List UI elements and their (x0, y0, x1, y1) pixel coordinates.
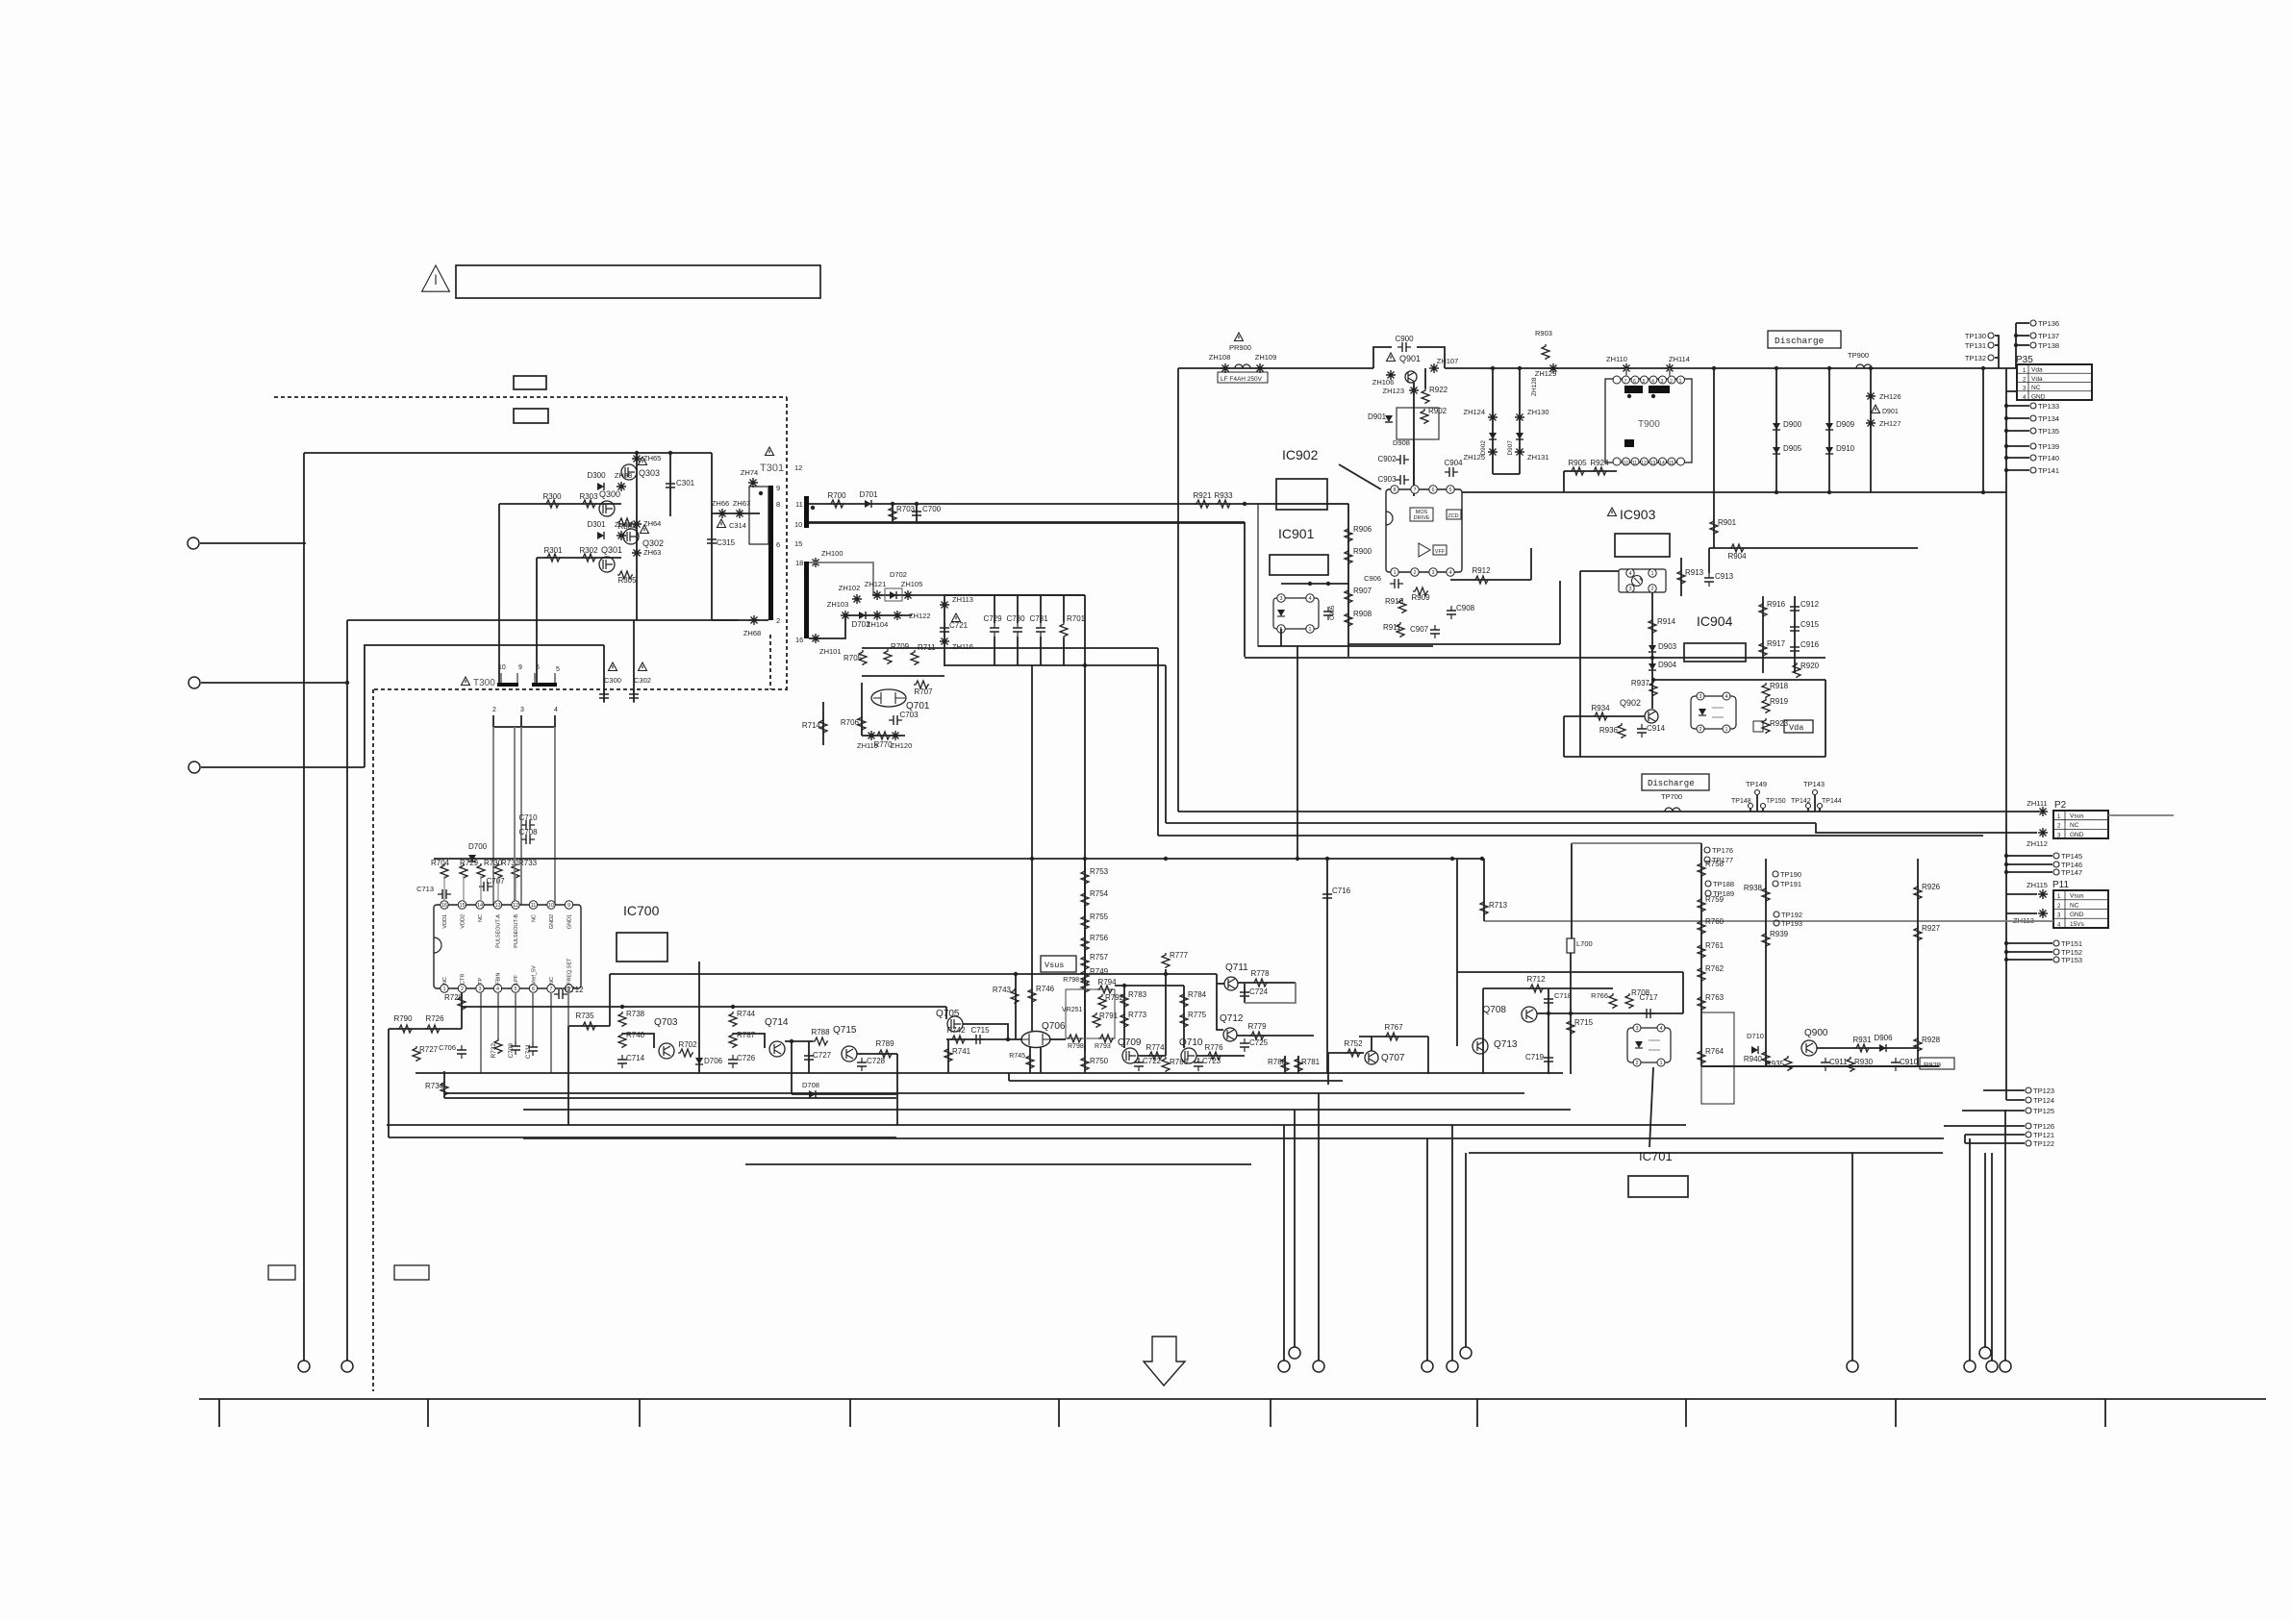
inductor TP700 (1665, 808, 1680, 812)
diode D904 (1649, 663, 1656, 670)
resistor R740 (618, 1033, 626, 1048)
testpoint TP192 (1774, 912, 1779, 917)
wire Q705 out (963, 1024, 1008, 1039)
junction Q708 row b (1569, 1012, 1573, 1015)
junction C700 (915, 502, 919, 506)
junction driver rail b (731, 1005, 735, 1009)
capacitor C900 (1397, 346, 1411, 348)
warning C721 (952, 613, 961, 622)
wire ground rail right (1701, 1065, 1939, 1067)
wire T900 pin2 up (1669, 368, 1671, 376)
svg-text:10: 10 (1623, 461, 1628, 466)
jumper ZH110 (1622, 363, 1631, 373)
jumper ZH63 (632, 548, 642, 558)
transistor Q715 (842, 1046, 857, 1062)
wire IC902 block bottom (1348, 643, 1560, 645)
wire right bus A (1982, 368, 1984, 493)
svg-text:TP190: TP190 (1780, 870, 1801, 879)
wire TP136 stub (2016, 322, 2029, 324)
IC902 pin 5 (1447, 486, 1454, 493)
resistor R744 (729, 1012, 737, 1027)
IC700 pin6 lead (532, 992, 534, 1042)
resistor R707 (914, 681, 929, 688)
diode D301 (597, 532, 604, 539)
wire C718 col (1548, 988, 1549, 1074)
svg-text:1: 1 (442, 987, 445, 992)
wire C710 left (514, 727, 516, 905)
connector P2 divider (2064, 811, 2066, 838)
wire bus 1137 (445, 1092, 1524, 1094)
svg-text:6: 6 (776, 540, 780, 549)
bottom tick 9 (1895, 1399, 1897, 1427)
resistor R709 (884, 649, 892, 664)
svg-text:11: 11 (531, 903, 537, 909)
svg-text:18: 18 (795, 559, 803, 567)
svg-text:R777: R777 (1170, 951, 1189, 960)
svg-text:C714: C714 (626, 1054, 645, 1062)
svg-text:10: 10 (548, 903, 554, 909)
IC902 ZCD box (1447, 510, 1461, 519)
snubber box D901/R902 (1397, 408, 1439, 439)
transistor Q712 (1223, 1028, 1237, 1041)
junction TP y435 (2004, 416, 2008, 420)
svg-text:PR900: PR900 (1229, 343, 1251, 352)
wire T301 pin2 (712, 619, 768, 621)
testpoint TP134 (2030, 415, 2036, 421)
svg-text:1: 1 (1659, 1061, 1662, 1066)
wire bus 1170 (387, 1124, 1686, 1126)
junction rail893 x1349 (1296, 857, 1299, 861)
diode D702 (890, 591, 896, 599)
svg-text:6: 6 (1633, 379, 1636, 385)
resistor R904 (1729, 544, 1745, 552)
resistor R726 (425, 1025, 441, 1033)
resistor R741 (944, 1047, 952, 1062)
svg-text:ZH106: ZH106 (1372, 378, 1395, 387)
svg-text:Q713: Q713 (1494, 1039, 1518, 1050)
svg-text:R773: R773 (1128, 1011, 1147, 1019)
bottom tick 3 (639, 1399, 641, 1427)
svg-text:ZH68: ZH68 (743, 629, 761, 637)
svg-text:ZH122: ZH122 (909, 612, 931, 620)
resistor R746 (1028, 987, 1036, 1003)
wire drop t6 (1465, 1153, 1467, 1347)
IC700 top pin 9 (565, 901, 572, 909)
diode D708 (809, 1090, 816, 1098)
connector P2 outer (2053, 811, 2108, 838)
wire bus 1124 (1009, 1080, 1343, 1082)
svg-text:13: 13 (1650, 461, 1656, 466)
svg-text:C302: C302 (634, 676, 651, 685)
svg-text:R709: R709 (891, 642, 910, 651)
wire Q902 left (1563, 716, 1565, 757)
jumper ZH127 (1866, 418, 1876, 428)
svg-text:Q301: Q301 (601, 545, 622, 555)
capacitor C706 (461, 1045, 463, 1059)
svg-text:ZH100: ZH100 (821, 549, 843, 558)
resistor R923 (1762, 718, 1770, 734)
resistor R734 (441, 1081, 448, 1096)
junction TP right y907 (2004, 870, 2008, 874)
svg-text:ZH63: ZH63 (643, 548, 661, 557)
resistor R727 (413, 1046, 420, 1062)
svg-text:LPF: LPF (514, 974, 519, 985)
capacitor C728 (861, 1058, 863, 1071)
svg-text:R929: R929 (1924, 1061, 1941, 1069)
part label box 1 (514, 376, 546, 389)
testpoint TP140 (2030, 455, 2036, 461)
svg-text:R933: R933 (1214, 491, 1233, 500)
svg-text:R715: R715 (1574, 1018, 1594, 1027)
svg-text:ZH129: ZH129 (1535, 369, 1557, 378)
svg-text:C719: C719 (1525, 1053, 1545, 1062)
svg-text:PULSEOUT-A: PULSEOUT-A (496, 914, 502, 948)
wire drop t4 (1426, 1138, 1428, 1361)
wire Q715 out (857, 1053, 897, 1055)
capacitor C723 (1197, 1058, 1199, 1071)
IC700 top pin 10 (547, 901, 555, 909)
svg-text:R900: R900 (1353, 547, 1372, 556)
svg-text:ZH124: ZH124 (1463, 408, 1485, 416)
testpoint TP176 (1704, 847, 1710, 853)
svg-text:C708: C708 (518, 828, 538, 837)
svg-text:D906: D906 (1874, 1034, 1893, 1042)
wire Q705 gate (945, 1007, 947, 1019)
resistor R750 (1081, 1056, 1089, 1071)
svg-text:TP: TP (478, 978, 484, 985)
wire TP right2 y990 (2006, 951, 2052, 953)
svg-text:ZCD: ZCD (1448, 513, 1458, 519)
svg-text:R702: R702 (678, 1040, 697, 1049)
connector P2 row 1 (2053, 810, 2108, 812)
wire TP right y890 (2006, 855, 2052, 857)
diode D902 (1489, 433, 1497, 439)
svg-text:R755: R755 (1090, 912, 1109, 921)
T300 winding lead 10 (500, 673, 502, 683)
part box bottom-left 2 (394, 1265, 429, 1280)
T301 dot pin9 (759, 491, 763, 495)
IC903 pass device (1632, 576, 1643, 587)
svg-text:ZH67: ZH67 (733, 499, 750, 508)
wire drop t3 (1318, 1093, 1320, 1361)
junction top rail (635, 451, 639, 455)
svg-text:IC904: IC904 (1697, 613, 1733, 629)
wire TP138 stub (2016, 344, 2029, 346)
svg-text:R701: R701 (1067, 614, 1086, 623)
wire Q707 base drop (1327, 1053, 1329, 1085)
wire TP right2 y981 (2006, 942, 2052, 944)
IC700 top pin 16 (441, 901, 448, 909)
svg-text:NC: NC (2070, 902, 2079, 909)
connector P35 row 1 (2017, 363, 2092, 365)
svg-text:R779: R779 (1247, 1022, 1267, 1031)
svg-text:ZH103: ZH103 (827, 600, 849, 609)
resistor R912 (1473, 576, 1489, 584)
resistor R919 (1762, 698, 1770, 713)
svg-text:ZH112: ZH112 (2027, 839, 2048, 848)
wire ZH126 col (1870, 368, 1872, 492)
wire TP149 stub (1756, 795, 1758, 812)
warning C314 (718, 519, 726, 528)
svg-text:C707: C707 (486, 877, 505, 886)
capacitor C722 (1138, 1058, 1140, 1071)
resistor R302 (581, 554, 596, 562)
svg-text:C724: C724 (1249, 987, 1269, 996)
wire P2 vsus ext (2108, 814, 2174, 816)
resistor R713 (1480, 900, 1488, 915)
transistor Q706 (dual) (1021, 1032, 1050, 1048)
wire T900 pin7 up (1625, 368, 1627, 376)
bottom tick 4 (849, 1399, 851, 1427)
svg-text:Q303: Q303 (639, 468, 660, 478)
svg-text:R937: R937 (1631, 679, 1650, 687)
bottom terminal 10 (1964, 1361, 1976, 1372)
junction TP137 (2014, 334, 2018, 337)
wire block right (1825, 680, 1826, 757)
svg-text:R939: R939 (1770, 930, 1789, 938)
svg-text:11: 11 (795, 500, 803, 509)
IC901 pin 3 (1277, 594, 1285, 602)
svg-text:4: 4 (1448, 570, 1451, 576)
wire Q301 source rail (347, 619, 738, 621)
warning T301 (766, 447, 774, 456)
wire C900 loop (1373, 347, 1392, 368)
svg-text:C916: C916 (1800, 640, 1820, 649)
down arrow (1144, 1337, 1185, 1386)
svg-text:ZH108: ZH108 (1209, 353, 1231, 362)
IC901 block outline (1258, 504, 1348, 646)
IC901 zener (1277, 610, 1285, 616)
svg-text:C730: C730 (1006, 614, 1025, 623)
capacitor C730 (1017, 623, 1019, 637)
capacitor C301 (669, 479, 671, 492)
wire Q711 out (1238, 982, 1296, 984)
wire ladder col (1084, 859, 1086, 1073)
svg-text:5: 5 (556, 666, 560, 673)
wire Q714 out (785, 1040, 813, 1042)
connector P35 row 2 (2017, 372, 2092, 374)
svg-text:R756: R756 (1090, 934, 1109, 942)
svg-text:R940: R940 (1744, 1055, 1763, 1063)
svg-text:R759: R759 (1705, 895, 1725, 904)
svg-text:R305: R305 (617, 576, 637, 585)
svg-text:GND: GND (2070, 832, 2084, 838)
testpoint TP152 (2053, 949, 2059, 955)
junction R777 (1164, 972, 1168, 976)
svg-text:ZH128: ZH128 (1531, 377, 1538, 396)
wire bus 1199 (1469, 1152, 1943, 1154)
svg-text:D300: D300 (587, 471, 606, 480)
svg-text:R746: R746 (1036, 985, 1055, 993)
T301 secondary bar B (804, 562, 809, 638)
jumper ZH64 (632, 519, 642, 529)
capacitor C904 (1445, 471, 1458, 473)
svg-text:R760: R760 (1705, 917, 1725, 926)
wire C300 (603, 645, 605, 702)
thermistor Q901 (1405, 371, 1417, 383)
wire C912 col (1794, 596, 1796, 673)
connector P11 outer (2053, 890, 2108, 928)
junction Q708 row a (1547, 1012, 1550, 1015)
wire fb row (568, 1025, 610, 1027)
testpoint TP125 (2026, 1108, 2031, 1113)
svg-text:R911: R911 (1383, 623, 1401, 632)
svg-text:6: 6 (532, 987, 535, 992)
svg-text:R908: R908 (1353, 610, 1372, 618)
svg-text:R913: R913 (1685, 568, 1704, 577)
resistor R914 (1649, 618, 1656, 634)
jumper ZH130 (1515, 412, 1524, 422)
wire R781 col (1297, 1056, 1299, 1073)
wire T900 sec out (1564, 470, 1617, 472)
transistor Q900 (1801, 1040, 1817, 1056)
svg-text:1: 1 (1393, 570, 1396, 576)
junction TP y448 (2004, 429, 2008, 433)
svg-text:TP134: TP134 (2038, 414, 2059, 423)
svg-text:1: 1 (1679, 379, 1682, 385)
wire mid riser c (1031, 665, 1033, 859)
svg-text:NC: NC (532, 914, 538, 922)
testpoint TP153 (2053, 957, 2059, 962)
jumper ZH102 (852, 594, 862, 604)
svg-text:C903: C903 (1377, 475, 1397, 484)
wire TP150 stub (1762, 809, 1764, 812)
svg-text:R904: R904 (1727, 552, 1747, 561)
svg-text:TP192: TP192 (1781, 911, 1802, 919)
svg-text:TP144: TP144 (1822, 798, 1842, 805)
IC700 top pin 11 (529, 901, 537, 909)
resistor R767 (1384, 1033, 1399, 1040)
svg-text:GND: GND (2070, 912, 2084, 918)
wire C731 a (1040, 595, 1042, 623)
jumper ZH119 (867, 731, 876, 740)
wire R913 col (1680, 558, 1682, 596)
svg-text:C731: C731 (1029, 614, 1048, 623)
resistor R786 (1162, 1057, 1170, 1072)
diode D901 (1385, 415, 1393, 422)
wire C900 loop b (1417, 347, 1445, 368)
svg-text:4: 4 (1659, 1026, 1662, 1032)
transistor Q707 (1365, 1051, 1378, 1064)
wire Q708 block top (1457, 971, 1683, 973)
wire lv rail (389, 1028, 462, 1030)
wire pin2 drop (461, 992, 463, 1029)
svg-text:3: 3 (1635, 1026, 1638, 1032)
wire Vsus rail (1178, 811, 2039, 812)
connector P35 row 3 (2017, 382, 2092, 384)
svg-text:L700: L700 (1576, 939, 1593, 948)
svg-text:Q302: Q302 (642, 538, 664, 548)
svg-text:R909: R909 (1411, 593, 1430, 602)
testpoint TP151 (2053, 940, 2059, 946)
resistor R752 (1346, 1049, 1361, 1057)
svg-text:TP124: TP124 (2033, 1096, 2054, 1105)
IC902 pin 2 (1411, 568, 1419, 576)
capacitor C906 (1390, 583, 1403, 585)
svg-text:Q901: Q901 (1399, 354, 1421, 363)
svg-text:C711: C711 (525, 1044, 532, 1059)
resistor R778 (1252, 979, 1268, 987)
T900 dot a (1627, 394, 1631, 398)
wire P11 pin1 (2006, 893, 2037, 895)
resistor R735 (581, 1022, 596, 1030)
junction Q714 out (790, 1039, 793, 1043)
wire TP y448 (2006, 430, 2029, 432)
wire rail 862 (1158, 835, 1983, 837)
IC902 pin 8 (1391, 486, 1398, 493)
T301 secondary bar A (804, 496, 809, 528)
resistor R921 (1195, 500, 1210, 508)
capacitor C708 (521, 838, 535, 840)
capacitor C902 (1396, 459, 1409, 461)
svg-text:D702: D702 (890, 570, 907, 579)
dashed T300 box left (372, 689, 374, 1391)
IC902 VFF box (1433, 545, 1447, 555)
transistor Q301 (599, 557, 615, 572)
svg-text:TP150: TP150 (1766, 798, 1786, 805)
testpoint TP142 (1806, 804, 1811, 809)
svg-text:R783: R783 (1128, 990, 1147, 999)
testpoint TP145 (2053, 853, 2059, 859)
IC903 pin 1 (1649, 569, 1656, 577)
junction TP right2 y990 (2004, 950, 2008, 954)
svg-text:ZH64: ZH64 (643, 519, 661, 528)
testpoint TP131 (1988, 342, 1994, 348)
jumper ZH105 (903, 590, 913, 600)
svg-text:R919: R919 (1770, 697, 1789, 706)
svg-text:C300: C300 (604, 676, 621, 685)
capacitor C911 (1825, 1058, 1826, 1071)
warning IC903 (1608, 508, 1617, 516)
svg-text:TP900: TP900 (1848, 351, 1869, 360)
IC700 chip body (434, 905, 581, 988)
svg-text:16: 16 (441, 903, 447, 909)
capacitor C716 (1326, 889, 1328, 903)
svg-text:TP142: TP142 (1791, 798, 1811, 805)
resistor R702 (678, 1049, 693, 1057)
bottom tick 6 (1270, 1399, 1271, 1427)
svg-text:VDD2: VDD2 (461, 914, 466, 929)
resistor R934 (1593, 712, 1608, 720)
wire top rail primary (304, 452, 712, 454)
capacitor C916 (1794, 642, 1796, 656)
wire C729 a (994, 595, 995, 623)
svg-text:ZH66: ZH66 (712, 499, 729, 508)
testpoint TP123 (2026, 1087, 2031, 1093)
transistor Q703 (659, 1043, 674, 1059)
warning D901b (1872, 405, 1880, 413)
svg-text:R780: R780 (1268, 1058, 1287, 1066)
svg-text:Q708: Q708 (1483, 1005, 1507, 1015)
resistor R754 (1081, 891, 1089, 907)
wire IC901 left drop (1244, 522, 1246, 657)
svg-text:7: 7 (1413, 487, 1416, 493)
svg-text:C729: C729 (983, 614, 1002, 623)
svg-text:R903: R903 (1535, 329, 1552, 337)
warning triangle note (422, 265, 450, 291)
wire sec rail 11 (809, 503, 1348, 505)
junction TP y464 (2004, 444, 2008, 448)
capacitor C915 (1794, 622, 1796, 636)
svg-text:R921: R921 (1193, 491, 1212, 500)
svg-text:Q706: Q706 (1042, 1021, 1066, 1032)
svg-text:D903: D903 (1658, 642, 1677, 651)
svg-text:Q900: Q900 (1804, 1028, 1828, 1038)
svg-text:P2: P2 (2054, 800, 2067, 811)
testpoint TP137 (2030, 333, 2036, 338)
IC902 opamp (1419, 543, 1430, 557)
capacitor C726 (732, 1055, 734, 1068)
